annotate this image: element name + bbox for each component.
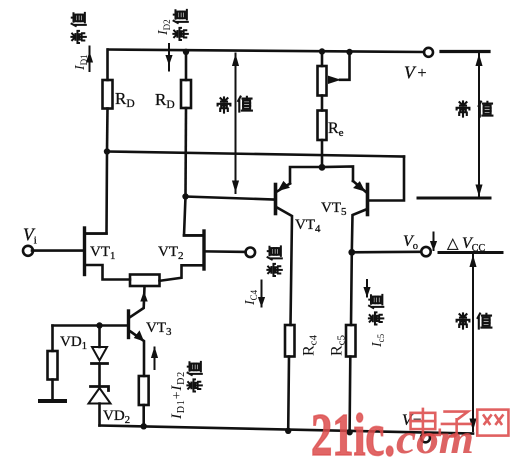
arrow ID1 up <box>89 47 91 72</box>
node emitters <box>319 164 326 171</box>
arrow Ic5 down <box>366 280 368 297</box>
bar right-top bottom <box>418 197 490 200</box>
wire mid rail to VT5 base drop <box>107 152 404 157</box>
wire VD2 to bottom rail <box>98 404 101 426</box>
wire box to VT3 collector <box>131 287 145 317</box>
resistor bias left <box>48 351 58 380</box>
watermark char zi <box>442 412 471 437</box>
transistor VT1 <box>83 228 86 275</box>
terminal V+ <box>424 48 433 57</box>
bar dVcc <box>439 251 502 254</box>
arrow IC4 down <box>261 281 263 307</box>
terminal VT2 gate <box>246 248 256 258</box>
node Rc4 bottom <box>285 428 291 434</box>
wire VT5 base drop <box>370 157 404 201</box>
wire emitter rail left <box>290 167 322 184</box>
arrow ID1+ID2 up <box>154 348 156 370</box>
node RD2 top <box>183 49 189 55</box>
ground <box>40 399 65 403</box>
wire bottom rail <box>100 426 474 434</box>
wire top rail <box>108 50 424 53</box>
wire Rc5 top <box>350 252 353 325</box>
arrow Vo down <box>433 233 435 251</box>
annotation arrows <box>87 44 502 431</box>
wire VT1 drain riser <box>86 152 107 234</box>
node at RD1 bottom <box>104 148 110 154</box>
wire RD1 bottom lead <box>106 109 109 152</box>
watermark 21ic.com <box>311 402 474 459</box>
watermark char dian <box>411 409 440 435</box>
transistor VT3 <box>127 311 130 338</box>
resistor source box <box>130 275 160 287</box>
node RD2 bottom <box>182 193 188 199</box>
wire top rail right segment <box>441 50 489 53</box>
resistor RD2 <box>181 80 191 108</box>
label ID2 changzhi (rotated, two columns) <box>156 10 188 40</box>
wire RD2 top lead <box>185 52 188 80</box>
transistor VT5 <box>366 185 370 215</box>
wire RD2 bottom lead <box>184 108 187 197</box>
arrow constant right-top (two heads) <box>478 54 480 198</box>
transistor VT2 <box>202 231 205 269</box>
svg-text:+: + <box>418 65 427 82</box>
wire RD1 top lead <box>106 50 109 81</box>
wire VT4 base <box>186 197 274 200</box>
resistor Rc4 <box>285 325 295 357</box>
diode VD1 <box>98 326 101 348</box>
wire Vo <box>352 251 421 254</box>
wire VD1-VD2 <box>98 364 101 387</box>
label changzhi bottom-right <box>457 313 492 328</box>
svg-text:△: △ <box>447 236 459 252</box>
resistor Rc5 <box>346 325 356 357</box>
label ID1 changzhi (rotated) <box>71 13 89 71</box>
label Ic5 changzhi (rotated column) <box>369 295 386 348</box>
wire emitter rail right <box>322 167 353 182</box>
svg-text:21ic.: 21ic. <box>311 402 395 459</box>
wire pot to Re <box>321 96 324 111</box>
watermark 电子网 <box>411 409 509 437</box>
resistor Re <box>318 111 327 141</box>
terminal V- <box>421 433 430 442</box>
wire Re to emitters <box>321 140 324 167</box>
node Rc5 bottom <box>346 429 352 435</box>
arrow ID2 down <box>168 44 170 71</box>
terminal Vo <box>421 247 430 256</box>
watermark char wang <box>477 410 508 436</box>
node bottom rail left <box>141 423 147 429</box>
potentiometer top <box>321 52 324 67</box>
node Vo junction <box>348 249 355 256</box>
resistor RD1 <box>103 80 113 109</box>
terminal Vi <box>23 246 33 256</box>
arrow constant right-bottom (two heads) <box>472 255 474 432</box>
arrow constant mid (two heads) <box>235 54 237 194</box>
wire VT2 drain riser <box>184 197 203 236</box>
node VT3 base <box>96 322 102 328</box>
label ID1+ID2 changzhi (rotated two columns) <box>169 362 202 420</box>
label changzhi top-right <box>457 101 493 116</box>
resistor VT3 emitter <box>139 376 149 405</box>
label changzhi mid <box>218 97 252 113</box>
label IC4 changzhi (rotated, two columns) <box>243 246 282 306</box>
diode VD2 <box>91 387 109 391</box>
transistor VT4 <box>274 185 278 214</box>
